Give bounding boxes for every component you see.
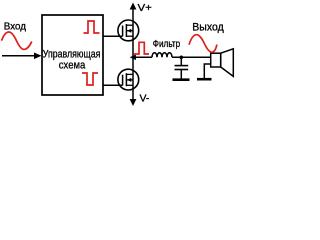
capacitor C1: [175, 66, 189, 70]
node A junction dot: [130, 55, 136, 61]
ground speaker: [197, 78, 212, 81]
pulse symbol top gate drive: [84, 21, 100, 33]
label Фильтр: [153, 39, 181, 50]
svg-text:V+: V+: [138, 2, 152, 14]
wire capacitor to ground: [180, 69, 182, 78]
pulse symbol bottom gate drive (inverted): [82, 73, 98, 85]
wire inductor to speaker: [172, 56, 211, 58]
label Выход: [192, 21, 224, 33]
inductor L1: [152, 53, 172, 58]
wire capacitor drop: [180, 56, 184, 66]
input sine wave: [2, 32, 32, 49]
label V-: [140, 93, 150, 105]
V+ supply wire and arrow: [130, 3, 137, 21]
speaker LS1: [211, 49, 234, 77]
output sine wave: [189, 35, 217, 53]
wire speaker return: [204, 64, 210, 78]
ground capacitor: [173, 78, 190, 81]
svg-text:Вход: Вход: [4, 20, 26, 32]
wire gate upper: [103, 35, 123, 37]
label V+: [138, 2, 152, 14]
svg-text:Фильтр: Фильтр: [153, 39, 181, 50]
V- supply wire and arrow: [130, 90, 137, 106]
control circuit block U1: [42, 15, 103, 95]
wire node to filter: [133, 56, 152, 58]
label Управляющая схема: [43, 49, 101, 72]
pulse symbol output PWM: [134, 42, 149, 54]
wire gate lower: [103, 84, 123, 86]
transistor Q1 upper MOSFET: [118, 20, 139, 41]
label Вход: [4, 20, 26, 32]
wire mid rail between transistors: [132, 41, 134, 69]
svg-text:V-: V-: [140, 93, 150, 105]
input arrow wire: [2, 53, 42, 60]
svg-text:схема: схема: [59, 60, 86, 72]
transistor Q2 lower MOSFET: [118, 69, 139, 90]
svg-text:Выход: Выход: [192, 21, 224, 33]
